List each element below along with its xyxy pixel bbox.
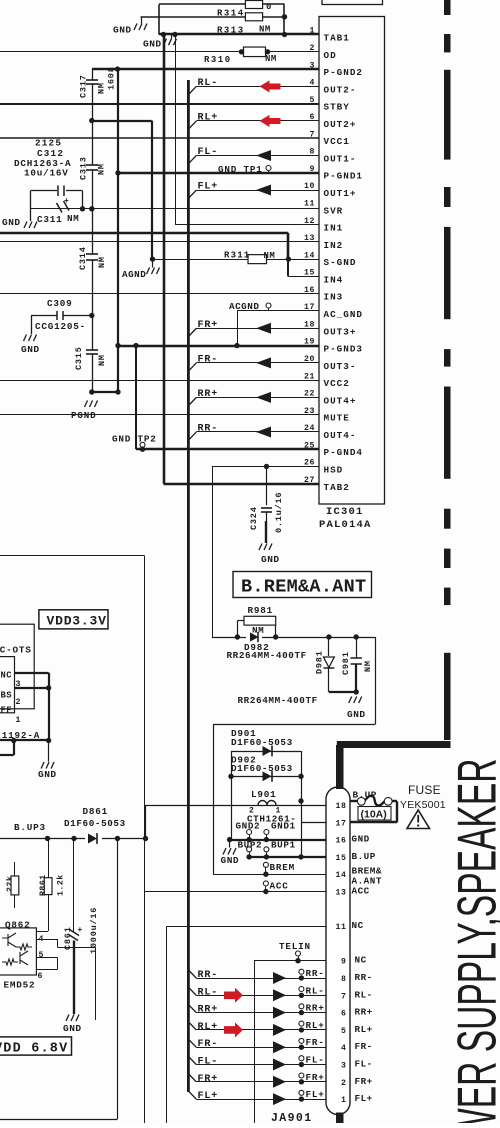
svg-text:B.UP: B.UP xyxy=(353,790,377,801)
svg-text:NM: NM xyxy=(265,54,277,64)
svg-text:NC: NC xyxy=(352,920,364,931)
svg-text:RR-: RR- xyxy=(355,972,373,983)
svg-text:C861: C861 xyxy=(63,926,73,950)
svg-text:P-GND1: P-GND1 xyxy=(324,171,363,182)
svg-text:C324: C324 xyxy=(249,506,259,530)
svg-text:11: 11 xyxy=(304,200,315,209)
svg-text:OUT2+: OUT2+ xyxy=(324,119,357,130)
svg-text:OUT3-: OUT3- xyxy=(324,361,357,372)
svg-text:7: 7 xyxy=(341,992,347,1001)
svg-text:FUSE: FUSE xyxy=(408,783,441,797)
svg-text:1.2k: 1.2k xyxy=(56,874,66,896)
svg-text:+: + xyxy=(78,926,83,935)
svg-text:RR264MM-400TF: RR264MM-400TF xyxy=(227,650,307,661)
svg-text:FL+: FL+ xyxy=(198,1091,219,1102)
svg-text:RR264MM-400TF: RR264MM-400TF xyxy=(238,695,318,706)
svg-text:2125: 2125 xyxy=(35,137,62,148)
svg-text:NC: NC xyxy=(355,955,367,966)
svg-text:GND: GND xyxy=(261,554,280,565)
svg-text:AC_GND: AC_GND xyxy=(324,309,363,320)
svg-text:6: 6 xyxy=(341,1010,347,1019)
svg-text:RR+: RR+ xyxy=(198,389,219,400)
svg-text:FL+: FL+ xyxy=(306,1089,325,1100)
svg-text:FF: FF xyxy=(1,706,13,716)
svg-text:FR-: FR- xyxy=(306,1037,325,1048)
svg-text:RR-: RR- xyxy=(198,970,219,981)
svg-text:FL-: FL- xyxy=(198,147,219,158)
svg-text:D861: D861 xyxy=(83,806,109,817)
svg-text:C311: C311 xyxy=(37,214,63,225)
svg-text:FR-: FR- xyxy=(198,1039,219,1050)
svg-text:ACC: ACC xyxy=(270,881,289,892)
svg-text:8: 8 xyxy=(341,975,347,984)
svg-text:NM: NM xyxy=(264,251,276,261)
svg-text:P-GND2: P-GND2 xyxy=(324,67,363,78)
svg-text:D1F60-5053: D1F60-5053 xyxy=(64,818,126,829)
svg-text:VDD 6.8V: VDD 6.8V xyxy=(0,1042,68,1057)
svg-text:RL+: RL+ xyxy=(198,1022,219,1033)
svg-text:R311: R311 xyxy=(224,251,250,261)
svg-text:RL+: RL+ xyxy=(355,1024,373,1035)
svg-text:B.UP3: B.UP3 xyxy=(14,822,46,833)
svg-text:RL-: RL- xyxy=(355,989,373,1000)
svg-text:POWER SUPPLY,SPEAKER: POWER SUPPLY,SPEAKER xyxy=(446,759,500,1124)
svg-text:NM: NM xyxy=(97,354,107,366)
svg-text:R861: R861 xyxy=(39,874,48,896)
svg-text:16: 16 xyxy=(335,837,346,846)
svg-text:PAL014A: PAL014A xyxy=(319,519,372,531)
svg-text:C309: C309 xyxy=(47,298,73,309)
svg-text:L901: L901 xyxy=(251,789,277,800)
svg-text:5: 5 xyxy=(341,1027,347,1036)
svg-text:NM: NM xyxy=(67,213,79,224)
svg-text:OUT4+: OUT4+ xyxy=(324,395,357,406)
svg-text:+: + xyxy=(64,197,69,206)
svg-text:BUP1: BUP1 xyxy=(271,840,296,851)
svg-text:IN1: IN1 xyxy=(324,223,344,234)
svg-text:TAB1: TAB1 xyxy=(324,33,350,44)
svg-text:RL-: RL- xyxy=(198,78,219,89)
svg-text:FR+: FR+ xyxy=(198,320,219,331)
svg-text:RR-: RR- xyxy=(198,423,219,434)
svg-text:RR+: RR+ xyxy=(355,1007,373,1018)
svg-text:FL-: FL- xyxy=(355,1059,373,1070)
svg-text:RR+: RR+ xyxy=(306,1003,325,1014)
svg-text:2: 2 xyxy=(16,698,21,707)
svg-text:C314: C314 xyxy=(78,246,88,270)
svg-text:4: 4 xyxy=(341,1044,347,1053)
svg-text:NC: NC xyxy=(1,671,13,681)
svg-text:YEK5001: YEK5001 xyxy=(400,799,446,811)
svg-text:ACGND: ACGND xyxy=(229,301,259,312)
svg-text:GND: GND xyxy=(352,834,370,845)
svg-text:IN2: IN2 xyxy=(324,240,344,251)
svg-text:FL-: FL- xyxy=(306,1055,325,1066)
svg-text:C981: C981 xyxy=(341,651,351,675)
svg-text:BREM: BREM xyxy=(270,862,296,873)
svg-text:GND TP1: GND TP1 xyxy=(218,164,263,175)
svg-text:OD: OD xyxy=(324,50,337,61)
svg-text:P-GND4: P-GND4 xyxy=(324,447,363,458)
svg-text:1: 1 xyxy=(16,716,21,725)
svg-text:RL+: RL+ xyxy=(306,1020,325,1031)
svg-text:NM: NM xyxy=(363,660,373,672)
svg-text:S-GND: S-GND xyxy=(324,257,357,268)
svg-text:FR-: FR- xyxy=(198,354,219,365)
svg-text:VCC1: VCC1 xyxy=(324,136,350,147)
svg-text:CCG1205-: CCG1205- xyxy=(35,321,86,332)
svg-text:P-GND3: P-GND3 xyxy=(324,344,363,355)
svg-text:RL-: RL- xyxy=(198,987,219,998)
svg-text:FL-: FL- xyxy=(198,1057,219,1068)
svg-text:HSD: HSD xyxy=(324,465,344,476)
svg-text:15: 15 xyxy=(335,854,346,863)
svg-text:RL-: RL- xyxy=(306,985,325,996)
svg-text:FR+: FR+ xyxy=(306,1072,325,1083)
svg-text:OUT1-: OUT1- xyxy=(324,153,357,164)
svg-text:TAB2: TAB2 xyxy=(324,482,350,493)
svg-text:17: 17 xyxy=(335,819,346,828)
svg-text:OUT3+: OUT3+ xyxy=(324,326,357,337)
svg-text:GND1: GND1 xyxy=(271,821,296,832)
svg-text:1000u/16: 1000u/16 xyxy=(89,907,99,954)
svg-text:1: 1 xyxy=(341,1096,347,1105)
svg-text:NM: NM xyxy=(97,163,107,175)
svg-text:FR+: FR+ xyxy=(355,1076,373,1087)
svg-text:IC301: IC301 xyxy=(326,506,364,518)
svg-text:FL+: FL+ xyxy=(198,182,219,193)
svg-text:Q862: Q862 xyxy=(5,920,31,931)
svg-text:MUTE: MUTE xyxy=(324,413,350,424)
svg-text:TELIN: TELIN xyxy=(279,941,311,952)
svg-text:FR+: FR+ xyxy=(198,1074,219,1085)
svg-text:1608: 1608 xyxy=(107,66,117,90)
svg-text:OUT2-: OUT2- xyxy=(324,84,357,95)
svg-text:SVR: SVR xyxy=(324,205,344,216)
svg-text:FR-: FR- xyxy=(355,1041,373,1052)
svg-text:OUT4-: OUT4- xyxy=(324,430,357,441)
svg-text:GND: GND xyxy=(2,217,21,228)
svg-text:GND: GND xyxy=(21,344,40,355)
svg-text:3: 3 xyxy=(341,1062,347,1071)
svg-text:ACC: ACC xyxy=(352,886,370,897)
svg-text:EMD52: EMD52 xyxy=(4,980,36,991)
svg-text:RR-: RR- xyxy=(306,968,325,979)
svg-text:14: 14 xyxy=(304,251,315,260)
svg-text:IN3: IN3 xyxy=(324,292,344,303)
svg-text:BS: BS xyxy=(1,691,13,701)
svg-text:0.1u/16: 0.1u/16 xyxy=(274,492,284,533)
svg-text:PGND: PGND xyxy=(71,410,97,421)
svg-text:6: 6 xyxy=(38,972,43,981)
svg-text:18: 18 xyxy=(335,802,346,811)
svg-text:14: 14 xyxy=(335,871,346,880)
svg-text:C317: C317 xyxy=(79,74,89,98)
svg-text:5: 5 xyxy=(39,951,44,960)
svg-text:10u/16V: 10u/16V xyxy=(24,168,69,179)
svg-text:GND: GND xyxy=(38,769,57,780)
svg-text:IN4: IN4 xyxy=(324,274,344,285)
svg-text:C-OTS: C-OTS xyxy=(0,645,32,656)
svg-text:GND: GND xyxy=(221,855,240,866)
svg-text:RR+: RR+ xyxy=(198,1005,219,1016)
svg-text:GND: GND xyxy=(347,709,366,720)
svg-text:NM: NM xyxy=(97,256,107,268)
svg-text:NM: NM xyxy=(97,82,107,94)
svg-text:13: 13 xyxy=(335,889,346,898)
svg-text:11: 11 xyxy=(335,923,346,932)
svg-text:B.REM&A.ANT: B.REM&A.ANT xyxy=(241,577,366,598)
svg-text:D981: D981 xyxy=(315,650,325,674)
svg-text:VCC2: VCC2 xyxy=(324,378,350,389)
svg-text:B.UP: B.UP xyxy=(352,851,376,862)
svg-text:C315: C315 xyxy=(74,346,84,370)
svg-text:C313: C313 xyxy=(79,156,89,180)
svg-text:10: 10 xyxy=(304,182,315,191)
svg-text:R310: R310 xyxy=(204,55,232,65)
svg-text:GND: GND xyxy=(63,1023,82,1034)
svg-text:2: 2 xyxy=(341,1079,347,1088)
svg-text:OUT1+: OUT1+ xyxy=(324,188,357,199)
svg-text:9: 9 xyxy=(341,958,347,967)
svg-text:GND: GND xyxy=(113,25,132,36)
svg-text:D1F60-5053: D1F60-5053 xyxy=(231,763,293,774)
svg-text:21: 21 xyxy=(304,372,315,381)
svg-text:R981: R981 xyxy=(248,605,274,616)
svg-text:D1F60-5053: D1F60-5053 xyxy=(231,737,293,748)
svg-text:GND TP2: GND TP2 xyxy=(112,434,157,445)
svg-text:AGND: AGND xyxy=(122,269,146,280)
svg-text:RL+: RL+ xyxy=(198,112,219,123)
svg-text:GND: GND xyxy=(143,39,162,50)
svg-text:FL+: FL+ xyxy=(355,1093,373,1104)
svg-text:VDD3.3V: VDD3.3V xyxy=(47,614,107,629)
svg-text:JA901: JA901 xyxy=(271,1112,313,1123)
svg-text:(10A): (10A) xyxy=(361,809,387,821)
svg-text:STBY: STBY xyxy=(324,102,350,113)
